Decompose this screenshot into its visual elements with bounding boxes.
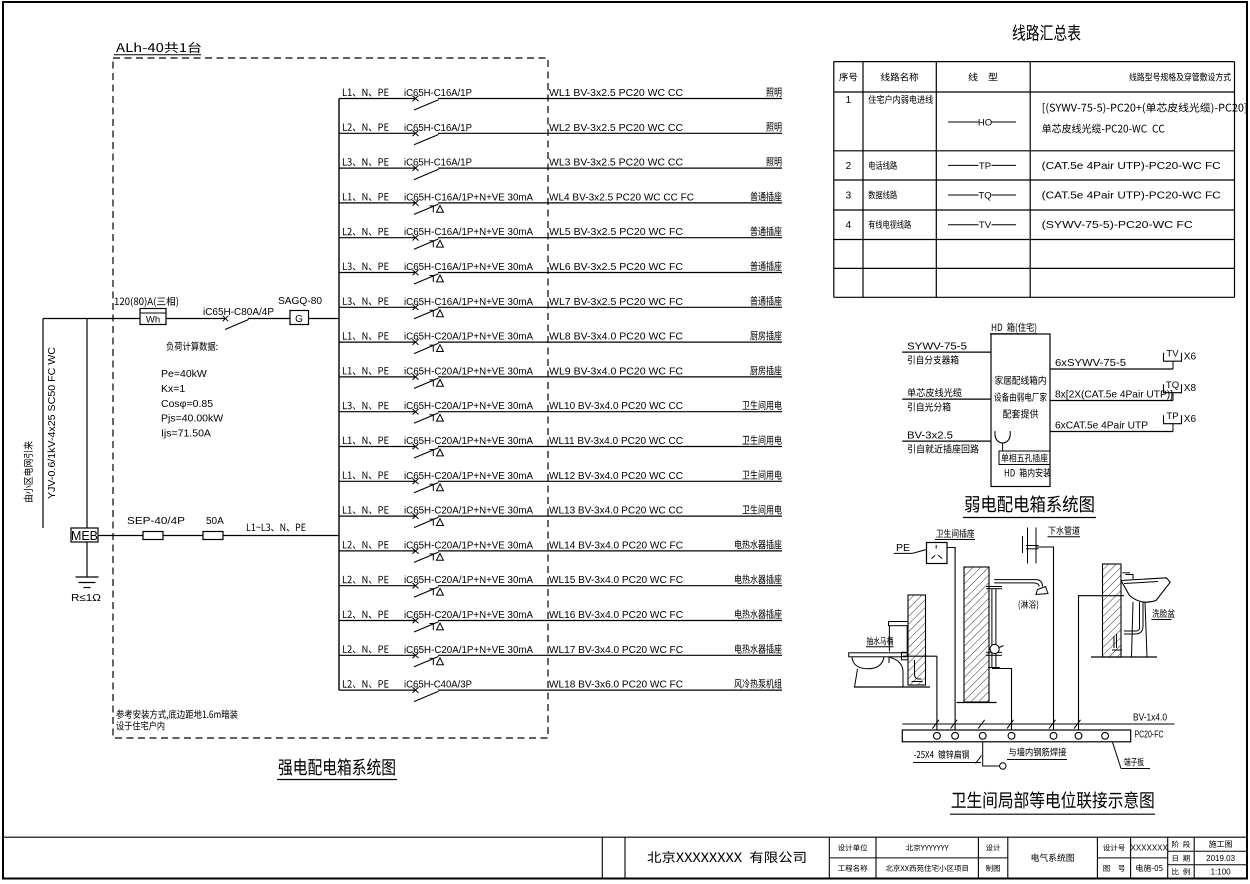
svg-text:WL7 BV-3x2.5 PC20 WC FC: WL7 BV-3x2.5 PC20 WC FC — [549, 296, 683, 308]
svg-text:TQ: TQ — [978, 191, 991, 202]
svg-text:WL4 BV-3x2.5 PC20 WC CC FC: WL4 BV-3x2.5 PC20 WC CC FC — [549, 191, 694, 203]
svg-text:iC65H-C20A/1P+N+VE 30mA: iC65H-C20A/1P+N+VE 30mA — [404, 540, 533, 551]
svg-text:WL16 BV-3x4.0 PC20 WC FC: WL16 BV-3x4.0 PC20 WC FC — [549, 609, 683, 621]
svg-text:iC65H-C20A/1P+N+VE 30mA: iC65H-C20A/1P+N+VE 30mA — [404, 506, 533, 517]
svg-text:(SYWV-75-5)-PC20-WC FC: (SYWV-75-5)-PC20-WC FC — [1042, 219, 1193, 231]
svg-text:iC65H-C40A/3P: iC65H-C40A/3P — [404, 680, 472, 691]
svg-text:SYWV-75-5: SYWV-75-5 — [907, 341, 967, 352]
svg-text:(CAT.5e 4Pair UTP)-PC20-WC FC: (CAT.5e 4Pair UTP)-PC20-WC FC — [1042, 160, 1221, 172]
svg-text:Kx=1: Kx=1 — [161, 383, 185, 395]
svg-text:50A: 50A — [206, 516, 224, 527]
svg-text:8x[2X(CAT.5e 4Pair UTP)]: 8x[2X(CAT.5e 4Pair UTP)] — [1055, 389, 1173, 401]
svg-text:SEP-40/4P: SEP-40/4P — [127, 516, 185, 527]
svg-text:6xCAT.5e 4Pair UTP: 6xCAT.5e 4Pair UTP — [1055, 420, 1148, 432]
svg-text:iC65H-C16A/1P+N+VE 30mA: iC65H-C16A/1P+N+VE 30mA — [404, 192, 533, 203]
svg-text:(CAT.5e 4Pair UTP)-PC20-WC FC: (CAT.5e 4Pair UTP)-PC20-WC FC — [1042, 190, 1221, 202]
svg-text:HO: HO — [978, 118, 992, 129]
svg-text:BV-3x2.5: BV-3x2.5 — [907, 430, 953, 441]
svg-text:TV: TV — [979, 220, 992, 231]
svg-text:iC65H-C20A/1P+N+VE 30mA: iC65H-C20A/1P+N+VE 30mA — [404, 366, 533, 377]
svg-text:iC65H-C20A/1P+N+VE 30mA: iC65H-C20A/1P+N+VE 30mA — [404, 332, 533, 343]
svg-text:TP: TP — [1166, 411, 1178, 422]
svg-text:4: 4 — [846, 220, 852, 231]
svg-text:iC65H-C16A/1P+N+VE 30mA: iC65H-C16A/1P+N+VE 30mA — [404, 262, 533, 273]
svg-text:iC65H-C20A/1P+N+VE 30mA: iC65H-C20A/1P+N+VE 30mA — [404, 401, 533, 412]
svg-text:WL2 BV-3x2.5 PC20 WC CC: WL2 BV-3x2.5 PC20 WC CC — [549, 122, 683, 134]
svg-text:TV: TV — [1166, 348, 1179, 359]
svg-text:3: 3 — [846, 191, 852, 202]
svg-text:iC65H-C16A/1P+N+VE 30mA: iC65H-C16A/1P+N+VE 30mA — [404, 297, 533, 308]
svg-text:WL14 BV-3x4.0 PC20 WC FC: WL14 BV-3x4.0 PC20 WC FC — [549, 539, 683, 551]
svg-text:WL15 BV-3x4.0 PC20 WC FC: WL15 BV-3x4.0 PC20 WC FC — [549, 574, 683, 586]
svg-text:WL18 BV-3x6.0 PC20 WC FC: WL18 BV-3x6.0 PC20 WC FC — [549, 679, 683, 691]
svg-text:XXXXXXX: XXXXXXX — [1130, 844, 1168, 853]
svg-text:WL8 BV-3x4.0 PC20 WC FC: WL8 BV-3x4.0 PC20 WC FC — [549, 331, 683, 343]
svg-text:iC65H-C20A/1P+N+VE 30mA: iC65H-C20A/1P+N+VE 30mA — [404, 610, 533, 621]
svg-text:WL17 BV-3x4.0 PC20 WC FC: WL17 BV-3x4.0 PC20 WC FC — [549, 644, 683, 656]
svg-text:2: 2 — [846, 161, 852, 172]
svg-text:PE: PE — [896, 542, 910, 554]
svg-text:R≤1Ω: R≤1Ω — [71, 592, 101, 604]
svg-text:WL10 BV-3x4.0 PC20 WC CC: WL10 BV-3x4.0 PC20 WC CC — [549, 400, 683, 412]
svg-text:X8: X8 — [1184, 383, 1197, 394]
svg-text:WL12 BV-3x4.0 PC20 WC CC: WL12 BV-3x4.0 PC20 WC CC — [549, 470, 683, 482]
svg-text:6xSYWV-75-5: 6xSYWV-75-5 — [1055, 357, 1126, 369]
svg-text:BV-1x4.0: BV-1x4.0 — [1133, 712, 1167, 724]
svg-text:G: G — [295, 314, 303, 325]
svg-text:iC65H-C20A/1P+N+VE 30mA: iC65H-C20A/1P+N+VE 30mA — [404, 645, 533, 656]
svg-text:Pjs=40.00kW: Pjs=40.00kW — [161, 413, 223, 425]
svg-text:PC20-FC: PC20-FC — [1135, 729, 1164, 741]
svg-text:iC65H-C20A/1P+N+VE 30mA: iC65H-C20A/1P+N+VE 30mA — [404, 471, 533, 482]
svg-text:X6: X6 — [1184, 414, 1197, 425]
svg-text:WL11 BV-3x4.0 PC20 WC CC: WL11 BV-3x4.0 PC20 WC CC — [549, 435, 683, 447]
svg-text:2019.03: 2019.03 — [1206, 854, 1235, 863]
svg-text:Wh: Wh — [146, 315, 160, 326]
svg-text:WL9 BV-3x4.0 PC20 WC FC: WL9 BV-3x4.0 PC20 WC FC — [549, 365, 683, 377]
svg-text:iC65H-C16A/1P+N+VE 30mA: iC65H-C16A/1P+N+VE 30mA — [404, 227, 533, 238]
svg-text:SAGQ-80: SAGQ-80 — [278, 296, 322, 307]
svg-text:YJV-0.6/1kV-4x25 SC50 FC WC: YJV-0.6/1kV-4x25 SC50 FC WC — [47, 347, 58, 499]
svg-text:iC65H-C16A/1P: iC65H-C16A/1P — [404, 158, 472, 169]
svg-text:TP: TP — [979, 161, 991, 172]
svg-text:iC65H-C16A/1P: iC65H-C16A/1P — [404, 123, 472, 134]
svg-text:1:100: 1:100 — [1211, 868, 1232, 877]
svg-text:X6: X6 — [1184, 352, 1197, 363]
svg-text:iC65H-C20A/1P+N+VE 30mA: iC65H-C20A/1P+N+VE 30mA — [404, 575, 533, 586]
svg-text:iC65H-C80A/4P: iC65H-C80A/4P — [203, 307, 274, 318]
svg-text:Cosφ=0.85: Cosφ=0.85 — [161, 398, 213, 410]
svg-text:iC65H-C16A/1P: iC65H-C16A/1P — [404, 88, 472, 99]
svg-text:MEB: MEB — [71, 529, 98, 543]
svg-text:WL3 BV-3x2.5 PC20 WC CC: WL3 BV-3x2.5 PC20 WC CC — [549, 157, 683, 169]
svg-text:Ijs=71.50A: Ijs=71.50A — [161, 428, 211, 440]
svg-text:WL5 BV-3x2.5 PC20 WC FC: WL5 BV-3x2.5 PC20 WC FC — [549, 226, 683, 238]
svg-text:WL1 BV-3x2.5 PC20 WC CC: WL1 BV-3x2.5 PC20 WC CC — [549, 87, 683, 99]
svg-text:Pe=40kW: Pe=40kW — [161, 368, 207, 380]
svg-text:WL6 BV-3x2.5 PC20 WC FC: WL6 BV-3x2.5 PC20 WC FC — [549, 261, 683, 273]
svg-text:WL13 BV-3x4.0 PC20 WC CC: WL13 BV-3x4.0 PC20 WC CC — [549, 505, 683, 517]
svg-text:iC65H-C20A/1P+N+VE 30mA: iC65H-C20A/1P+N+VE 30mA — [404, 436, 533, 447]
svg-text:1: 1 — [846, 95, 852, 106]
